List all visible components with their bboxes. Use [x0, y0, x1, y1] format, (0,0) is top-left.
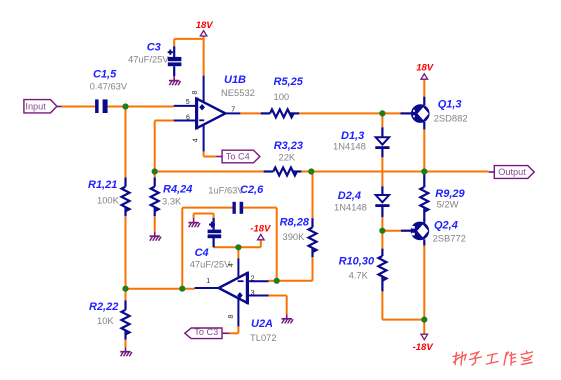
svg-text:2SD882: 2SD882: [434, 112, 468, 123]
svg-text:390K: 390K: [283, 231, 306, 242]
svg-text:18V: 18V: [196, 20, 214, 31]
svg-text:R4,24: R4,24: [163, 183, 192, 195]
svg-text:R8,28: R8,28: [280, 216, 310, 228]
svg-text:To C4: To C4: [226, 151, 250, 161]
svg-text:To C3: To C3: [194, 327, 218, 337]
svg-text:1N4148: 1N4148: [333, 141, 366, 152]
svg-text:NE5532: NE5532: [221, 87, 255, 98]
svg-text:22K: 22K: [279, 152, 296, 163]
svg-text:C3: C3: [147, 41, 161, 53]
svg-text:TL072: TL072: [250, 332, 277, 343]
svg-text:18V: 18V: [416, 63, 434, 74]
svg-text:1N4148: 1N4148: [334, 202, 367, 213]
svg-text:C4: C4: [195, 247, 209, 259]
svg-text:C1,5: C1,5: [93, 68, 117, 80]
svg-text:R3,23: R3,23: [274, 140, 303, 152]
svg-text:U2A: U2A: [251, 318, 273, 330]
svg-text:7: 7: [231, 107, 235, 114]
svg-text:6: 6: [186, 115, 190, 122]
svg-text:2SB772: 2SB772: [433, 233, 466, 244]
svg-text:10K: 10K: [97, 315, 114, 326]
svg-text:Q2,4: Q2,4: [434, 219, 458, 231]
svg-text:47uF/25V: 47uF/25V: [190, 259, 231, 270]
svg-text:47uF/25V: 47uF/25V: [128, 53, 169, 64]
svg-text:8: 8: [192, 91, 199, 95]
svg-text:Q1,3: Q1,3: [438, 98, 462, 110]
svg-text:Output: Output: [498, 167, 526, 177]
svg-text:100: 100: [274, 91, 290, 102]
svg-text:0.47/63V: 0.47/63V: [90, 81, 128, 92]
svg-text:5/2W: 5/2W: [437, 198, 459, 209]
svg-text:R10,30: R10,30: [339, 255, 375, 267]
svg-text:R5,25: R5,25: [274, 76, 304, 88]
svg-text:100K: 100K: [97, 195, 120, 206]
svg-text:2: 2: [251, 276, 255, 283]
svg-text:R2,22: R2,22: [89, 301, 118, 313]
svg-text:4: 4: [228, 263, 235, 267]
svg-text:U1B: U1B: [224, 74, 246, 86]
svg-text:-18V: -18V: [413, 342, 434, 353]
svg-text:Input: Input: [25, 102, 46, 112]
svg-text:R1,21: R1,21: [88, 179, 117, 191]
svg-text:4: 4: [192, 138, 199, 142]
svg-text:4.7K: 4.7K: [349, 270, 369, 281]
svg-text:-18V: -18V: [250, 224, 271, 235]
svg-text:1: 1: [206, 278, 210, 285]
svg-text:D2,4: D2,4: [338, 190, 361, 202]
svg-text:3: 3: [251, 290, 255, 297]
svg-text:8: 8: [228, 315, 235, 319]
svg-text:5: 5: [186, 99, 190, 106]
svg-text:3.3K: 3.3K: [162, 196, 182, 207]
svg-text:1uF/63V: 1uF/63V: [208, 185, 244, 196]
